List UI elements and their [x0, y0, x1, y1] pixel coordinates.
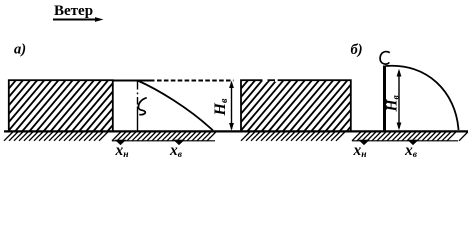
svg-text:Ветер: Ветер: [54, 3, 93, 19]
svg-text:б): б): [351, 42, 363, 58]
svg-text:а): а): [14, 42, 26, 58]
